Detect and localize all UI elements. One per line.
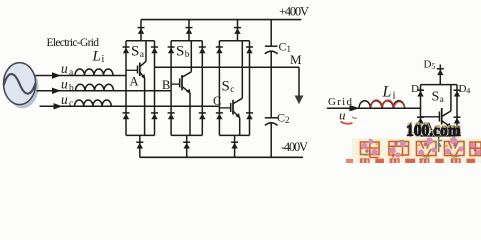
svg-text:i: i	[393, 90, 396, 102]
svg-text:u: u	[61, 61, 68, 76]
svg-text:-400V: -400V	[281, 140, 308, 154]
svg-text:M: M	[290, 52, 302, 67]
svg-text:b: b	[185, 50, 190, 60]
svg-text:5: 5	[431, 62, 435, 71]
svg-text:S: S	[176, 43, 184, 59]
svg-text:D: D	[424, 59, 432, 71]
svg-text:c: c	[69, 99, 73, 109]
svg-text:C: C	[279, 40, 287, 54]
svg-text:a: a	[440, 94, 444, 104]
svg-text:100.com: 100.com	[406, 123, 461, 140]
svg-text:Grid: Grid	[328, 96, 353, 108]
svg-text:u: u	[61, 92, 68, 107]
svg-text:L: L	[92, 49, 101, 65]
svg-text:D: D	[411, 83, 419, 95]
svg-text:+400V: +400V	[279, 5, 309, 19]
svg-text:1: 1	[419, 87, 423, 96]
svg-text:S: S	[222, 78, 230, 94]
svg-text:C: C	[277, 111, 285, 125]
svg-text:D: D	[459, 83, 467, 95]
svg-text:B: B	[162, 78, 170, 92]
svg-text:b: b	[69, 83, 74, 93]
svg-text:S: S	[432, 90, 440, 105]
svg-text:u: u	[61, 77, 68, 92]
svg-text:u: u	[339, 108, 346, 123]
svg-text:L: L	[382, 84, 392, 101]
svg-text:A: A	[130, 75, 139, 89]
svg-text:C: C	[213, 94, 221, 108]
svg-text:S: S	[131, 43, 139, 59]
svg-text:c: c	[230, 85, 234, 95]
svg-text:2: 2	[285, 115, 290, 125]
svg-text:4: 4	[466, 87, 470, 96]
svg-text:Electric-Grid: Electric-Grid	[47, 37, 100, 49]
svg-text:i: i	[102, 54, 105, 65]
